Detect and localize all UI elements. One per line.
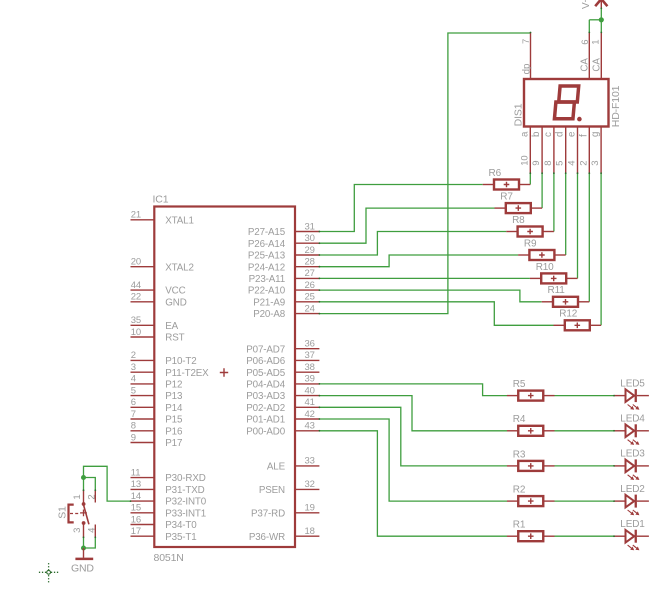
svg-text:P26-A14: P26-A14 [248, 239, 286, 250]
svg-text:CA: CA [591, 58, 602, 72]
svg-text:6: 6 [131, 397, 136, 408]
svg-text:P15: P15 [165, 415, 183, 426]
svg-text:26: 26 [305, 280, 315, 291]
svg-text:40: 40 [305, 385, 315, 396]
wire P04-AD4 to R5 [319, 384, 507, 396]
svg-text:XTAL1: XTAL1 [165, 215, 193, 226]
resistor R10 [530, 262, 578, 284]
junction S1 top [81, 475, 86, 480]
svg-text:g: g [590, 132, 601, 137]
svg-text:36: 36 [305, 339, 315, 350]
wire junction to S1 pin1 [83, 478, 85, 491]
svg-text:R3: R3 [513, 449, 526, 460]
svg-text:P02-AD2: P02-AD2 [246, 403, 285, 414]
svg-text:RST: RST [165, 333, 184, 344]
svg-text:8051N: 8051N [154, 552, 184, 564]
svg-text:4: 4 [131, 374, 136, 385]
svg-text:P03-AD3: P03-AD3 [246, 391, 285, 402]
wire segment c to resistor [553, 173, 555, 231]
LED LED3 [614, 449, 649, 480]
svg-text:b: b [531, 131, 542, 137]
svg-text:IC1: IC1 [153, 194, 169, 206]
svg-text:R11: R11 [548, 285, 566, 296]
7-segment display DIS1 HD-F101 [513, 32, 622, 173]
svg-text:P01-AD1: P01-AD1 [246, 415, 285, 426]
wire R3 to LED3 [555, 465, 615, 467]
svg-text:P30-RXD: P30-RXD [165, 473, 205, 484]
svg-text:5: 5 [131, 385, 136, 396]
wire P23-A11 to R10 [319, 277, 530, 279]
svg-text:P23-A11: P23-A11 [249, 274, 285, 285]
svg-text:3: 3 [590, 161, 601, 166]
svg-text:ALE: ALE [267, 462, 286, 473]
svg-text:2: 2 [578, 161, 589, 166]
svg-text:P14: P14 [165, 403, 183, 414]
svg-text:9: 9 [131, 432, 136, 443]
svg-text:R4: R4 [513, 414, 526, 425]
svg-text:R10: R10 [536, 262, 554, 273]
wire segment a to resistor [529, 173, 531, 184]
wire P21-A9 to R12 [319, 302, 554, 326]
svg-text:32: 32 [305, 479, 315, 490]
resistor R5 [507, 379, 555, 401]
svg-text:8: 8 [131, 421, 136, 432]
svg-text:dp: dp [522, 63, 533, 74]
svg-text:29: 29 [305, 245, 315, 256]
svg-text:44: 44 [131, 280, 141, 291]
svg-text:P06-AD6: P06-AD6 [246, 356, 285, 367]
svg-text:P31-TXD: P31-TXD [165, 485, 204, 496]
svg-text:P11-T2EX: P11-T2EX [165, 368, 209, 379]
wire R2 to LED2 [555, 500, 615, 502]
svg-text:d: d [555, 132, 566, 137]
svg-text:P00-AD0: P00-AD0 [246, 426, 285, 437]
wire P32-INT0 to S1 [84, 466, 131, 501]
svg-text:R8: R8 [512, 215, 525, 226]
svg-text:10: 10 [519, 156, 530, 166]
wire P00-AD0 to R1 [319, 431, 507, 536]
svg-text:P34-T0: P34-T0 [165, 520, 197, 531]
svg-text:21: 21 [131, 210, 141, 221]
origin marker [39, 563, 60, 584]
svg-text:P33-INT1: P33-INT1 [165, 508, 206, 519]
svg-text:5: 5 [555, 161, 566, 166]
svg-text:V+: V+ [581, 0, 592, 9]
svg-text:R1: R1 [513, 520, 526, 531]
svg-text:25: 25 [305, 292, 315, 303]
svg-text:8: 8 [543, 161, 554, 166]
wire P22-A10 to R11 [319, 290, 542, 302]
wire R4 to LED4 [555, 430, 615, 432]
wire R1 to LED1 [555, 535, 615, 537]
wire segment f to resistor [588, 173, 590, 302]
svg-text:P16: P16 [165, 426, 183, 437]
wire P02-AD2 to R3 [319, 407, 507, 466]
resistor R1 [507, 520, 555, 542]
svg-text:LED5: LED5 [620, 378, 645, 389]
svg-text:R7: R7 [500, 192, 513, 203]
LED LED1 [614, 519, 649, 550]
svg-text:2: 2 [131, 350, 136, 361]
svg-text:R2: R2 [513, 485, 526, 496]
svg-text:17: 17 [131, 526, 141, 537]
svg-text:PSEN: PSEN [259, 485, 285, 496]
svg-text:33: 33 [305, 456, 315, 467]
svg-text:DIS1: DIS1 [513, 103, 525, 126]
svg-text:c: c [543, 132, 554, 137]
svg-text:R5: R5 [513, 379, 526, 390]
svg-text:P04-AD4: P04-AD4 [246, 380, 285, 391]
svg-text:P37-RD: P37-RD [251, 508, 285, 519]
wire P03-AD3 to R4 [319, 396, 507, 431]
svg-text:P24-A12: P24-A12 [248, 262, 285, 273]
svg-text:1: 1 [591, 40, 602, 45]
svg-text:39: 39 [305, 374, 315, 385]
switch S1 [56, 490, 97, 537]
svg-text:LED4: LED4 [620, 414, 645, 425]
svg-text:a: a [519, 131, 530, 137]
svg-text:18: 18 [305, 526, 315, 537]
svg-text:P20-A8: P20-A8 [253, 309, 285, 320]
svg-text:30: 30 [305, 233, 315, 244]
svg-text:P22-A10: P22-A10 [248, 286, 286, 297]
svg-text:P07-AD7: P07-AD7 [246, 344, 285, 355]
svg-text:P17: P17 [165, 438, 182, 449]
svg-text:3: 3 [72, 528, 83, 533]
svg-text:27: 27 [305, 268, 315, 279]
LED LED5 [614, 378, 649, 409]
svg-text:6: 6 [580, 40, 591, 45]
wire segment g to resistor [600, 173, 602, 325]
junction S1 bottom [81, 546, 86, 551]
svg-text:P12: P12 [165, 380, 182, 391]
svg-text:15: 15 [131, 503, 141, 514]
junction at V+ [599, 17, 604, 22]
svg-text:P25-A13: P25-A13 [248, 251, 286, 262]
LED LED4 [614, 414, 649, 445]
resistor R11 [542, 285, 590, 307]
svg-text:1: 1 [72, 494, 83, 499]
resistor R2 [507, 485, 555, 507]
LED LED2 [614, 484, 649, 515]
wire P24-A12 to R9 [319, 255, 518, 267]
svg-text:P27-A15: P27-A15 [248, 227, 286, 238]
svg-text:16: 16 [131, 514, 141, 525]
resistor R12 [554, 309, 602, 331]
svg-text:4: 4 [567, 161, 578, 166]
supply V+ [581, 0, 608, 9]
pin connection dots [83, 7, 615, 538]
svg-text:P32-INT0: P32-INT0 [165, 497, 206, 508]
svg-text:22: 22 [131, 292, 141, 303]
svg-text:14: 14 [131, 491, 141, 502]
wire P25-A13 to R8 [319, 232, 506, 256]
svg-text:R12: R12 [559, 309, 577, 320]
wire S1 pin4 to GND [84, 537, 96, 548]
ground GND [71, 548, 94, 575]
svg-text:4: 4 [86, 528, 97, 533]
wire P27-A15 to R6 [319, 185, 483, 232]
svg-text:LED2: LED2 [620, 484, 645, 495]
wire S1 pin3 to GND [83, 537, 85, 548]
svg-text:CA: CA [579, 58, 590, 72]
svg-text:11: 11 [131, 467, 141, 478]
svg-text:38: 38 [305, 362, 315, 373]
svg-text:S1: S1 [56, 506, 68, 519]
svg-text:P10-T2: P10-T2 [165, 356, 196, 367]
resistor R8 [506, 215, 554, 237]
svg-text:XTAL2: XTAL2 [165, 262, 193, 273]
svg-text:LED3: LED3 [620, 449, 645, 460]
svg-text:LED1: LED1 [620, 519, 645, 530]
svg-text:19: 19 [305, 503, 315, 514]
svg-text:7: 7 [521, 39, 532, 44]
svg-text:P36-WR: P36-WR [249, 532, 285, 543]
wire P01-AD1 to R2 [319, 419, 507, 501]
resistor R9 [518, 238, 566, 260]
svg-text:2: 2 [86, 494, 97, 499]
svg-text:P21-A9: P21-A9 [253, 297, 285, 308]
svg-text:10: 10 [131, 327, 141, 338]
wire P26-A14 to R7 [319, 208, 495, 243]
svg-text:R6: R6 [489, 168, 502, 179]
svg-text:f: f [578, 134, 589, 137]
resistor R6 [483, 168, 531, 190]
svg-text:9: 9 [531, 161, 542, 166]
wire junction to S1 pin2 [84, 478, 96, 491]
svg-text:43: 43 [305, 421, 315, 432]
svg-text:37: 37 [305, 350, 315, 361]
resistor R4 [507, 414, 555, 436]
svg-text:35: 35 [131, 315, 141, 326]
svg-text:3: 3 [131, 362, 136, 373]
svg-text:41: 41 [305, 397, 315, 408]
svg-text:GND: GND [165, 297, 186, 308]
svg-text:28: 28 [305, 257, 315, 268]
svg-text:R9: R9 [524, 238, 537, 249]
wire R5 to LED5 [555, 395, 615, 397]
svg-text:e: e [567, 131, 578, 137]
svg-text:7: 7 [131, 409, 136, 420]
svg-text:P13: P13 [165, 391, 183, 402]
resistor R3 [507, 449, 555, 471]
svg-text:VCC: VCC [165, 286, 185, 297]
svg-text:13: 13 [131, 479, 141, 490]
svg-text:EA: EA [165, 321, 178, 332]
svg-text:42: 42 [305, 409, 315, 420]
wire P20-A8 to dp [319, 33, 531, 314]
IC IC1 8051N [131, 194, 320, 565]
wire segment e to resistor [577, 173, 579, 278]
wire segment b to resistor [541, 173, 543, 208]
svg-text:P35-T1: P35-T1 [165, 532, 196, 543]
svg-text:HD-F101: HD-F101 [610, 85, 622, 127]
svg-text:20: 20 [131, 257, 141, 268]
svg-text:GND: GND [71, 563, 94, 575]
svg-text:P05-AD5: P05-AD5 [246, 368, 285, 379]
svg-text:24: 24 [305, 303, 315, 314]
resistor R7 [495, 192, 543, 214]
wire V+ to CA pins [600, 8, 602, 32]
wire segment d to resistor [565, 173, 567, 255]
svg-text:31: 31 [305, 221, 315, 232]
